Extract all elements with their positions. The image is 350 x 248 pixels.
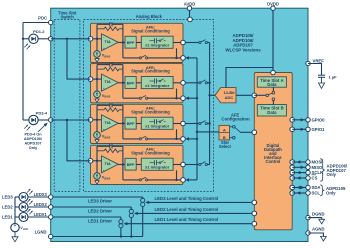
AFE1 reset control wire xyxy=(185,56,189,59)
svg-text:PD3-4 On: PD3-4 On xyxy=(24,133,42,137)
AFE3 input wire xyxy=(91,119,102,121)
time slot A/B select switch xyxy=(254,94,265,96)
AFE3 reset input node xyxy=(181,137,186,142)
LED3 driver current source xyxy=(141,198,145,202)
svg-text:TIA: TIA xyxy=(104,79,111,84)
AFE4 feedback capacitor CF xyxy=(97,145,110,147)
LED3 driver wire from pin xyxy=(51,196,143,198)
svg-text:Signal Conditioning: Signal Conditioning xyxy=(131,150,170,155)
SCL pin xyxy=(290,191,295,196)
AFE4 integrator output wire xyxy=(173,164,183,166)
AFE1 wire BPF to integrator xyxy=(136,42,141,44)
AFE2 integrator reset switch xyxy=(122,83,124,98)
AFE1 integrator output wire xyxy=(173,42,183,44)
svg-text:CS: CS xyxy=(312,175,318,180)
PD1-2 input node xyxy=(49,37,53,41)
LED cathode rail xyxy=(14,197,16,223)
digital datapath and interface control block xyxy=(254,73,292,230)
svg-text:SCLK: SCLK xyxy=(312,170,325,175)
svg-text:Only: Only xyxy=(326,191,336,196)
time slot switch wire to AFE4 xyxy=(67,120,91,161)
MOSI pin xyxy=(290,160,295,165)
AFE4 reset input node xyxy=(181,178,186,183)
svg-text:GPIO1: GPIO1 xyxy=(312,127,326,132)
LEDX2 pin xyxy=(49,205,53,209)
svg-text:+: + xyxy=(14,223,17,228)
svg-text:TIA: TIA xyxy=(104,161,111,166)
AFE1 feedback left branch wire xyxy=(96,24,98,39)
AFE4 input node xyxy=(88,159,93,164)
AFE3 bias current source IBIAS xyxy=(96,120,98,132)
analog block dashed box xyxy=(84,19,214,191)
AFE4 x1 integrator xyxy=(141,158,173,170)
slot select block xyxy=(219,125,230,139)
PD3-4 input node xyxy=(49,118,53,122)
svg-text:TIA: TIA xyxy=(104,120,111,125)
AFE2 output switch to ADC mux xyxy=(185,82,199,84)
svg-text:ADPD106/: ADPD106/ xyxy=(24,137,43,141)
AFE2 x1 integrator xyxy=(141,77,173,89)
LEDX1 pin xyxy=(49,215,53,219)
AFE3 feedback resistor RF xyxy=(97,109,104,111)
svg-text:+: + xyxy=(103,46,105,50)
AFE1 feedback right branch wire xyxy=(122,24,124,42)
AFE4 TIA output wire xyxy=(118,164,125,166)
AFE3 TIA op-amp xyxy=(102,115,119,132)
svg-text:Analog Block: Analog Block xyxy=(136,14,163,19)
GPIO1 pin xyxy=(290,127,295,132)
PD3-4 note arrow xyxy=(38,125,46,132)
svg-text:x1 Integrator: x1 Integrator xyxy=(145,43,170,48)
time slot switch wire PD1-2 to AFE1 xyxy=(51,38,91,40)
svg-text:x1 Integrator: x1 Integrator xyxy=(145,165,170,170)
LED2 level and timing control wire xyxy=(134,212,138,215)
ADC output wire xyxy=(236,94,254,96)
LED driver ground rail xyxy=(51,236,143,238)
AFE3 input node xyxy=(88,118,93,123)
AFE1 output switch to ADC mux xyxy=(185,42,199,44)
svg-text:-: - xyxy=(103,117,104,121)
svg-text:LGND: LGND xyxy=(35,230,47,235)
svg-text:B: B xyxy=(223,135,226,140)
svg-text:+: + xyxy=(103,86,105,90)
ADC output node on digital block xyxy=(252,93,257,98)
svg-text:+: + xyxy=(103,127,105,131)
svg-text:BPF: BPF xyxy=(127,121,135,126)
time slot A data block xyxy=(257,77,286,87)
reset control vertical wire xyxy=(196,58,198,180)
svg-text:BPF: BPF xyxy=(127,40,135,45)
AFE2 TIA output wire xyxy=(118,82,125,84)
PDC wire to photodiode rail xyxy=(23,22,49,24)
wire mux to ADC input xyxy=(210,94,215,96)
svg-text:x1 Integrator: x1 Integrator xyxy=(145,124,170,129)
svg-text:Signal Conditioning: Signal Conditioning xyxy=(131,109,170,114)
AFE4 output node xyxy=(181,162,186,167)
svg-text:Only: Only xyxy=(29,146,38,150)
AFE2 feedback right branch wire xyxy=(122,65,124,83)
AFE2 feedback capacitor CF xyxy=(97,64,110,66)
AFE4 feedback left branch wire xyxy=(96,146,98,161)
DGND pin xyxy=(306,215,310,219)
AFE4 wire BPF to integrator xyxy=(136,164,141,166)
svg-text:LED3 Driver: LED3 Driver xyxy=(88,199,112,204)
svg-text:LED3 Level and Timing Control: LED3 Level and Timing Control xyxy=(155,196,219,201)
svg-text:SDA: SDA xyxy=(312,185,321,190)
AFE4 TIA op-amp xyxy=(102,156,119,173)
AFE1 bias current source IBIAS xyxy=(96,39,98,51)
CS pin xyxy=(290,176,295,181)
AFE1 reset input node xyxy=(181,56,186,61)
AFE2 feedback left branch wire xyxy=(96,65,98,80)
AFE4 reset control wire xyxy=(185,178,189,181)
AFE1 integrator reset switch xyxy=(122,43,124,58)
AFE4 input wire xyxy=(91,160,102,162)
LED1 level and timing control wire xyxy=(124,222,128,225)
svg-text:BPF: BPF xyxy=(127,162,135,167)
VLED ground xyxy=(14,232,16,237)
svg-text:-: - xyxy=(103,36,104,40)
svg-text:LED2: LED2 xyxy=(2,204,13,209)
slot select output node xyxy=(252,130,257,135)
svg-text:VREF: VREF xyxy=(313,59,325,64)
svg-text:GPIO0: GPIO0 xyxy=(312,117,326,122)
svg-text:LED1: LED1 xyxy=(2,214,13,219)
AFE1 signal conditioning block xyxy=(91,23,184,62)
AFE1 feedback capacitor CF xyxy=(97,23,110,25)
AFE3 reset control wire xyxy=(185,137,189,140)
AFE3 wire BPF to integrator xyxy=(136,123,141,125)
svg-text:Control: Control xyxy=(265,159,280,164)
svg-text:ADC: ADC xyxy=(225,95,234,100)
wire slot select to reset control xyxy=(197,131,219,133)
svg-text:LEDX3: LEDX3 xyxy=(34,192,48,197)
svg-text:LEDX2: LEDX2 xyxy=(34,202,48,207)
svg-text:LED1 Driver: LED1 Driver xyxy=(88,219,112,224)
AFE4 signal conditioning block xyxy=(91,145,184,184)
AFE2 signal conditioning block xyxy=(91,64,184,103)
AFE2 input wire xyxy=(91,78,102,80)
svg-text:LEDX1: LEDX1 xyxy=(34,212,48,217)
svg-text:Signal Conditioning: Signal Conditioning xyxy=(131,28,170,33)
AFE1 output node xyxy=(181,40,186,45)
LGND pin xyxy=(49,234,53,238)
svg-text:PD1-2: PD1-2 xyxy=(33,29,45,34)
AFE3 feedback left branch wire xyxy=(96,105,98,120)
LED1 driver current source xyxy=(119,220,123,224)
AFE3 BPF xyxy=(125,117,136,129)
LED3 level and timing control wire xyxy=(145,201,149,204)
svg-text:A: A xyxy=(223,128,226,133)
AFE3 feedback right branch wire xyxy=(122,105,124,123)
AFE3 integrator output wire xyxy=(173,123,183,125)
time slot B data block xyxy=(257,105,286,117)
AFE2 feedback resistor RF xyxy=(97,68,104,70)
AVDD node on analog block xyxy=(188,17,193,22)
AFE4 bias current source IBIAS xyxy=(96,161,98,173)
AFE3 signal conditioning block xyxy=(91,104,184,143)
AFE1 feedback resistor RF xyxy=(97,28,104,30)
AFE3 x1 integrator xyxy=(141,117,173,129)
ADC mux vertical wire xyxy=(209,43,211,165)
svg-text:Data: Data xyxy=(267,82,277,87)
AFE2 reset control wire xyxy=(185,97,189,100)
svg-text:Data: Data xyxy=(267,110,277,115)
VLED supply source xyxy=(11,223,19,231)
svg-text:ADPD107: ADPD107 xyxy=(24,142,41,146)
AFE4 BPF xyxy=(125,158,136,170)
time slot switch dashed box xyxy=(54,19,80,191)
AFE1 BPF xyxy=(125,36,136,48)
LED1 driver wire from pin xyxy=(51,216,121,218)
svg-text:TIA: TIA xyxy=(104,39,111,44)
AGND pin xyxy=(306,231,310,235)
AFE1 TIA output wire xyxy=(118,42,125,44)
SDA pin xyxy=(290,185,295,190)
LED2 driver current source xyxy=(129,209,133,213)
svg-text:-: - xyxy=(103,76,104,80)
svg-text:Only: Only xyxy=(327,172,337,177)
AFE3 feedback capacitor CF xyxy=(97,104,110,106)
slot select switch xyxy=(230,126,233,128)
LED2 driver wire from pin xyxy=(51,206,132,208)
AFE3 TIA output wire xyxy=(118,123,125,125)
svg-text:MISO: MISO xyxy=(312,165,324,170)
svg-text:PDC: PDC xyxy=(38,16,47,21)
photodiode anode rail xyxy=(22,23,24,121)
AFE2 output node xyxy=(181,81,186,86)
ADPD105 only brace xyxy=(320,185,324,196)
svg-text:1 µF: 1 µF xyxy=(329,74,338,79)
AFE2 TIA op-amp xyxy=(102,74,119,91)
AFE2 wire BPF to integrator xyxy=(136,82,141,84)
SCLK pin xyxy=(290,170,295,175)
svg-text:-: - xyxy=(103,158,104,162)
AFE4 output switch to ADC mux xyxy=(185,164,199,166)
ADC 14-bit block xyxy=(215,88,236,103)
svg-text:WLCSP Versions: WLCSP Versions xyxy=(225,47,261,52)
svg-text:BPF: BPF xyxy=(127,80,135,85)
AFE4 feedback resistor RF xyxy=(97,150,104,152)
time slot switch wire to AFE2 xyxy=(67,39,91,79)
svg-text:Select: Select xyxy=(219,144,232,149)
svg-text:LED2 Level and Timing Control: LED2 Level and Timing Control xyxy=(155,207,219,212)
svg-text:LED1 Level and Timing Control: LED1 Level and Timing Control xyxy=(155,217,219,222)
AFE2 bias current source IBIAS xyxy=(96,79,98,91)
DVDD node circle xyxy=(271,70,276,75)
svg-text:PD3-4: PD3-4 xyxy=(36,110,48,115)
AFE2 reset input node xyxy=(181,96,186,101)
AFE1 input node xyxy=(88,37,93,42)
AFE3 integrator reset switch xyxy=(122,124,124,139)
AFE2 input node xyxy=(88,77,93,82)
time slot switch wire PD3-4 to AFE3 xyxy=(51,119,91,121)
svg-text:Configuration: Configuration xyxy=(221,116,250,121)
svg-text:LED3: LED3 xyxy=(2,194,13,199)
svg-text:Switch: Switch xyxy=(61,15,75,20)
svg-text:Signal Conditioning: Signal Conditioning xyxy=(131,69,170,74)
AFE2 BPF xyxy=(125,77,136,89)
GPIO0 pin xyxy=(290,118,295,123)
svg-text:MOSI: MOSI xyxy=(312,159,323,164)
ADPD106/ADPD107 only brace xyxy=(320,159,325,181)
AFE3 output switch to ADC mux xyxy=(185,123,199,125)
AFE3 output node xyxy=(181,121,186,126)
svg-text:+: + xyxy=(103,168,105,172)
svg-text:x1 Integrator: x1 Integrator xyxy=(145,83,170,88)
svg-text:VLED: VLED xyxy=(20,226,28,231)
VREF decoupling capacitor 1uF xyxy=(308,64,322,76)
chip body (main teal block) xyxy=(51,8,308,241)
AFE1 x1 integrator xyxy=(141,36,173,48)
MISO pin xyxy=(290,165,295,170)
svg-text:DGND: DGND xyxy=(312,212,325,217)
svg-text:SCL: SCL xyxy=(312,190,321,195)
AFE4 feedback right branch wire xyxy=(122,146,124,164)
ADC clock wire from DVDD xyxy=(226,68,273,88)
AFE1 TIA op-amp xyxy=(102,34,119,51)
VREF pin xyxy=(306,61,310,65)
AFE4 integrator reset switch xyxy=(122,165,124,180)
AFE2 integrator output wire xyxy=(173,82,183,84)
LEDX3 pin xyxy=(49,195,53,199)
svg-text:AGND: AGND xyxy=(312,226,325,231)
svg-text:LED2 Driver: LED2 Driver xyxy=(88,209,112,214)
AFE1 input wire xyxy=(91,38,102,40)
